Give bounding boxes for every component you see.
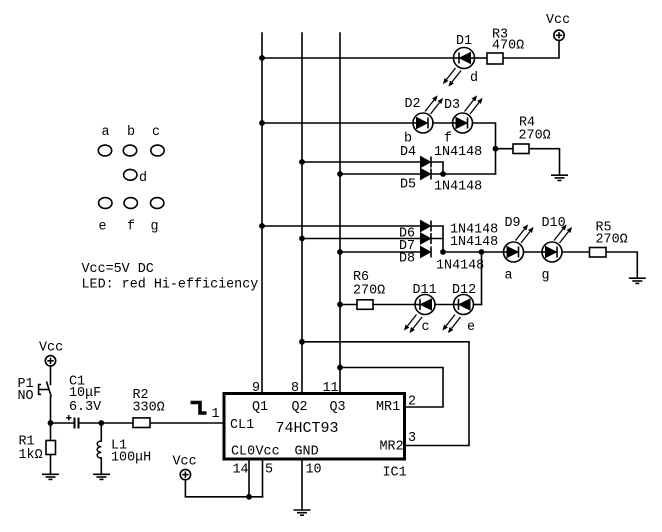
- svg-text:D11: D11: [413, 283, 437, 298]
- junction Q3/R6: [337, 302, 343, 308]
- resistor R3: [487, 53, 503, 64]
- svg-text:CL1: CL1: [230, 418, 254, 433]
- svg-text:b: b: [127, 125, 135, 140]
- junction Q2/D4: [299, 159, 305, 165]
- junction MR2/Q2: [299, 339, 305, 345]
- pulse symbol: [191, 403, 207, 414]
- resistor R2: [133, 418, 150, 428]
- svg-text:6.3V: 6.3V: [69, 400, 101, 415]
- wire node to R2: [101, 422, 133, 424]
- svg-text:D8: D8: [399, 252, 415, 267]
- wire node to L1: [100, 423, 102, 441]
- svg-text:14: 14: [233, 463, 249, 478]
- wire D12 to branch: [474, 304, 482, 306]
- wire D9 to D10: [524, 251, 542, 253]
- wire Q3 to D8: [340, 251, 421, 253]
- svg-text:e: e: [99, 220, 107, 235]
- wire node to R1: [50, 423, 52, 441]
- junction D4/D5: [440, 171, 446, 177]
- diode D8: [421, 247, 432, 258]
- ground IC pin10: [294, 510, 311, 515]
- resistor R4: [513, 144, 529, 154]
- wire Q3 bus (pin 11): [339, 33, 341, 394]
- junction Q1/d: [259, 55, 265, 61]
- svg-text:2: 2: [408, 395, 416, 410]
- svg-text:470Ω: 470Ω: [492, 39, 524, 54]
- wire segment b,f row: [262, 122, 413, 124]
- wire MR1 to Q3 bus: [340, 368, 443, 408]
- power Vcc bottom: [180, 469, 190, 479]
- svg-text:10: 10: [306, 463, 322, 478]
- svg-text:MR1: MR1: [376, 400, 400, 415]
- svg-text:Q2: Q2: [292, 400, 308, 415]
- capacitor C1: [75, 418, 79, 429]
- svg-text:74HCT93: 74HCT93: [276, 420, 339, 437]
- svg-text:GND: GND: [295, 445, 319, 460]
- junction node R4: [493, 146, 499, 152]
- svg-text:1N4148: 1N4148: [436, 259, 484, 274]
- diode D5: [421, 169, 432, 180]
- svg-text:MR2: MR2: [380, 440, 404, 455]
- junction P1/R1/C1: [48, 420, 54, 426]
- wire Q2 bus (pin 8): [301, 33, 303, 394]
- wire D1 to R3: [475, 57, 488, 59]
- svg-text:c: c: [152, 125, 160, 140]
- LED D3: [453, 95, 483, 133]
- wire pin14 CL0: [248, 459, 250, 497]
- junction Q3/D8: [337, 249, 343, 255]
- svg-text:270Ω: 270Ω: [353, 284, 385, 299]
- wire Vcc rail bottom: [185, 480, 262, 497]
- wire node to R4: [496, 148, 514, 150]
- svg-text:c: c: [422, 320, 430, 335]
- svg-text:1N4148: 1N4148: [434, 145, 482, 160]
- svg-text:e: e: [467, 320, 475, 335]
- svg-text:8: 8: [291, 381, 299, 396]
- wire L1 to ground: [100, 458, 102, 474]
- ground L1: [93, 474, 110, 479]
- wire R5 to ground: [606, 252, 637, 278]
- diode D4: [421, 157, 432, 168]
- wire Vcc top-left to switch: [50, 366, 52, 385]
- svg-text:3: 3: [408, 431, 416, 446]
- svg-text:Q3: Q3: [330, 400, 346, 415]
- svg-text:10μF: 10μF: [69, 386, 101, 401]
- inductor L1: [97, 441, 101, 458]
- svg-text:Vcc: Vcc: [256, 445, 280, 460]
- wire D4 cathode down: [431, 162, 443, 174]
- junction MR1/Q3: [337, 365, 343, 371]
- wire node a,g row: [443, 251, 503, 253]
- wire Q1 to D6: [262, 225, 421, 227]
- power Vcc top-left: [45, 356, 55, 366]
- svg-text:330Ω: 330Ω: [133, 401, 165, 416]
- resistor R5: [590, 248, 607, 258]
- junction Q2/D7: [299, 236, 305, 242]
- LED arrangement legend: [98, 145, 164, 208]
- wire D3 to node R4: [473, 123, 496, 174]
- wire C1 to node L1: [80, 422, 102, 424]
- junction pin14/Vcc rail: [246, 494, 252, 500]
- svg-text:Vcc: Vcc: [173, 455, 197, 470]
- junction Q1/b: [259, 120, 265, 126]
- svg-text:D1: D1: [456, 34, 472, 49]
- wire R2 to CL1: [150, 422, 224, 424]
- svg-text:Q1: Q1: [252, 400, 268, 415]
- LED D1: [443, 48, 475, 87]
- wire MR2 to Q2 bus: [302, 342, 469, 446]
- LED D11: [404, 295, 435, 334]
- wire segment d row: [262, 57, 454, 59]
- junction C1/L1/R2: [98, 420, 104, 426]
- LED D12: [442, 295, 473, 334]
- wire Q3 to R6: [340, 304, 357, 306]
- svg-text:1N4148: 1N4148: [434, 180, 482, 195]
- svg-text:f: f: [127, 220, 135, 235]
- svg-text:5: 5: [265, 463, 273, 478]
- ground R4: [551, 175, 568, 180]
- wire pin5 Vcc: [262, 459, 264, 497]
- wire node to C1: [51, 422, 74, 424]
- IC U1 74HCT93 body: [224, 394, 405, 460]
- junction D6/D7/D8: [440, 249, 446, 255]
- svg-text:Vcc: Vcc: [546, 13, 570, 28]
- resistor R1: [46, 441, 56, 455]
- svg-text:270Ω: 270Ω: [596, 233, 628, 248]
- wire R6 to D11: [373, 304, 415, 306]
- svg-text:D2: D2: [405, 97, 421, 112]
- svg-text:9: 9: [252, 381, 260, 396]
- power Vcc top-right: [554, 30, 564, 40]
- svg-text:LED: red Hi-efficiency: LED: red Hi-efficiency: [82, 278, 259, 293]
- LED D9: [504, 224, 534, 262]
- svg-text:g: g: [151, 220, 159, 235]
- wire Q1 bus (pin 9): [261, 33, 263, 394]
- switch P1: [39, 382, 52, 397]
- svg-text:D3: D3: [444, 98, 460, 113]
- wire R4 to ground: [529, 149, 560, 176]
- wire branch to c,e row: [481, 252, 483, 305]
- svg-text:d: d: [470, 71, 478, 86]
- junction Q1/D6: [259, 223, 265, 229]
- svg-text:d: d: [139, 171, 147, 186]
- ground R5: [629, 278, 646, 283]
- diode D7: [421, 233, 432, 244]
- svg-text:11: 11: [323, 381, 339, 396]
- wire R3 to Vcc: [503, 41, 559, 59]
- svg-text:IC1: IC1: [383, 466, 407, 481]
- svg-text:D9: D9: [505, 216, 521, 231]
- svg-text:CL0: CL0: [231, 445, 255, 460]
- wire D11 to D12: [435, 304, 454, 306]
- diode D6: [421, 221, 432, 232]
- wire Q2 to D4: [302, 161, 421, 163]
- wire diode collect line: [431, 226, 443, 252]
- wire Q2 to D7: [302, 238, 421, 240]
- LED D10: [542, 224, 572, 262]
- svg-text:D5: D5: [400, 178, 416, 193]
- svg-text:D12: D12: [452, 283, 476, 298]
- svg-text:1: 1: [212, 407, 220, 422]
- wire R1 to ground: [50, 455, 52, 475]
- svg-text:a: a: [102, 125, 110, 140]
- resistor R6: [357, 300, 373, 310]
- svg-text:Vcc: Vcc: [39, 341, 63, 356]
- svg-text:1kΩ: 1kΩ: [19, 448, 43, 463]
- svg-text:NO: NO: [18, 389, 34, 404]
- svg-text:g: g: [542, 269, 550, 284]
- wire switch to node C1: [50, 397, 52, 423]
- wire D5 cathode to node: [431, 173, 496, 175]
- svg-text:100μH: 100μH: [111, 451, 151, 466]
- ground R1: [42, 474, 59, 479]
- svg-text:D10: D10: [542, 216, 566, 231]
- wire D2 to D3: [433, 122, 453, 124]
- junction a,g / c,e branch: [479, 249, 485, 255]
- svg-text:Vcc=5V DC: Vcc=5V DC: [82, 262, 154, 277]
- svg-text:270Ω: 270Ω: [519, 128, 551, 143]
- wire Q3 to D5: [340, 173, 421, 175]
- svg-text:D4: D4: [400, 145, 416, 160]
- wire pin10 GND: [301, 459, 303, 510]
- svg-text:1N4148: 1N4148: [450, 235, 498, 250]
- junction Q3/D5: [337, 171, 343, 177]
- svg-text:a: a: [505, 269, 513, 284]
- LED D2: [413, 95, 443, 133]
- wire D10 to R5: [563, 251, 590, 253]
